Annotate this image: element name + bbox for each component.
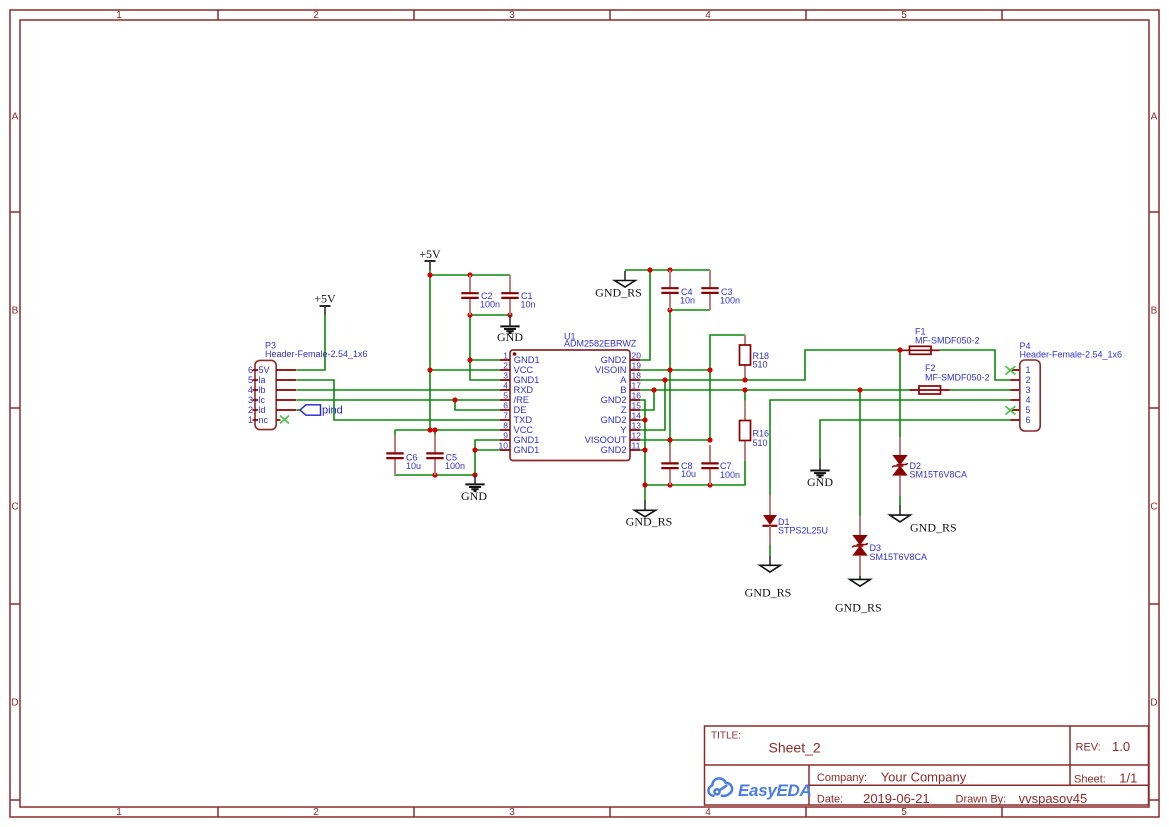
- svg-text:REV:: REV:: [1076, 742, 1101, 754]
- wire C5 top stub: [434, 430, 436, 436]
- svg-text:A: A: [12, 112, 19, 123]
- svg-text:GND2: GND2: [601, 445, 627, 455]
- wire GND2 pin11: [640, 449, 645, 451]
- svg-text:100n: 100n: [720, 296, 740, 306]
- svg-text:1.0: 1.0: [1112, 739, 1130, 754]
- EasyEDA logo: [708, 778, 732, 796]
- wire branch to U1 DE: [455, 400, 500, 410]
- svg-text:1: 1: [248, 415, 253, 425]
- svg-text:2: 2: [313, 807, 319, 818]
- svg-text:9: 9: [503, 431, 508, 441]
- svg-text:3: 3: [248, 395, 253, 405]
- svg-text:3: 3: [1026, 385, 1031, 395]
- resistor R18: [740, 335, 770, 378]
- wire P3.3 lc to U1 /RE: [297, 399, 500, 401]
- svg-text:4: 4: [248, 385, 253, 395]
- svg-text:20: 20: [632, 351, 642, 361]
- svg-text:1: 1: [503, 351, 508, 361]
- svg-text:F2: F2: [925, 363, 936, 373]
- svg-text:10n: 10n: [521, 300, 536, 310]
- svg-text:5: 5: [503, 391, 508, 401]
- svg-text:VISOOUT: VISOOUT: [585, 435, 627, 445]
- node C2 bottom: [467, 312, 472, 317]
- no-connect X on P4.5: [1005, 406, 1015, 414]
- node R16 top on B: [742, 387, 747, 392]
- svg-text:5: 5: [1026, 405, 1031, 415]
- svg-text:+5V: +5V: [314, 292, 336, 306]
- svg-text:C: C: [11, 502, 18, 513]
- svg-text:lb: lb: [259, 385, 266, 395]
- svg-text:RXD: RXD: [514, 385, 534, 395]
- svg-text:17: 17: [632, 381, 642, 391]
- svg-text:GND2: GND2: [601, 395, 627, 405]
- svg-text:pind: pind: [322, 405, 343, 417]
- diode D1 STPS2L25U: [763, 495, 829, 545]
- wire VCC pin2: [430, 369, 500, 371]
- svg-text:4: 4: [705, 10, 711, 21]
- svg-text:5: 5: [901, 10, 907, 21]
- svg-text:2019-06-21: 2019-06-21: [863, 791, 930, 806]
- svg-text:ADM2582EBRWZ: ADM2582EBRWZ: [564, 339, 637, 349]
- wire GND2 pin14: [640, 419, 645, 421]
- wire GND_RS stem lower middle: [644, 485, 646, 500]
- wire GND1 pin10: [475, 449, 500, 451]
- wire D1 net to P4.4: [770, 400, 1011, 495]
- capacitor C6: [386, 435, 421, 475]
- svg-text:GND: GND: [807, 475, 833, 489]
- svg-text:ld: ld: [259, 405, 266, 415]
- svg-text:10u: 10u: [406, 461, 421, 471]
- frame column labels top: [116, 10, 907, 21]
- svg-text:SM15T6V8CA: SM15T6V8CA: [870, 552, 928, 562]
- svg-text:6: 6: [248, 365, 253, 375]
- node bottom rail C7: [707, 482, 712, 487]
- svg-text:C: C: [1150, 502, 1157, 513]
- svg-text:100n: 100n: [445, 461, 465, 471]
- svg-text:D: D: [11, 698, 18, 709]
- wire +5V rail to C1: [430, 274, 510, 276]
- wire VISO vertical x670: [669, 310, 671, 445]
- ground GND at P4.6: [807, 460, 833, 490]
- svg-text:Drawn By:: Drawn By:: [956, 794, 1007, 806]
- wire P3.6 to +5V: [297, 315, 325, 370]
- svg-text:3: 3: [503, 371, 508, 381]
- svg-text:GND1: GND1: [514, 435, 540, 445]
- node GND1 pin1 tap: [467, 357, 472, 362]
- svg-text:8: 8: [503, 421, 508, 431]
- wire D1 bottom to GND_RS: [769, 545, 771, 556]
- svg-text:2: 2: [313, 10, 319, 21]
- wire C6/C5 top rail to VCC pin8: [395, 429, 500, 431]
- svg-text:1: 1: [116, 10, 122, 21]
- frame column ticks top: [218, 10, 1002, 20]
- svg-text:MF-SMDF050-2: MF-SMDF050-2: [915, 336, 980, 346]
- power +5V at P3: [314, 292, 336, 316]
- wire F2 right to P4.3: [950, 389, 1012, 391]
- svg-text:Date:: Date:: [817, 794, 843, 806]
- capacitor C4: [661, 270, 695, 310]
- node VISOIN x710: [707, 367, 712, 372]
- wire U1 GND2 pin20 up to GND_RS rail: [640, 270, 650, 360]
- svg-text:6: 6: [503, 401, 508, 411]
- node VISOIN x670: [667, 367, 672, 372]
- svg-text:Your Company: Your Company: [881, 769, 967, 784]
- netflag pind: [300, 405, 343, 417]
- wire GND_RS top rail: [625, 269, 710, 271]
- ground GND_RS under D3: [835, 576, 882, 615]
- wire GND1 pin9: [475, 440, 500, 475]
- node C5 bottom: [432, 472, 437, 477]
- svg-text:DE: DE: [514, 405, 527, 415]
- fuse F2: [910, 363, 990, 394]
- capacitor C2: [461, 275, 500, 315]
- fuse F1: [900, 327, 980, 355]
- node VISOOUT x670: [667, 437, 672, 442]
- wire D3 top from B row: [859, 390, 861, 516]
- frame column labels bottom: [116, 807, 907, 818]
- svg-text:3: 3: [509, 807, 515, 818]
- svg-text:18: 18: [632, 371, 642, 381]
- svg-text:11: 11: [632, 441, 641, 451]
- wire C6/C5 bottom rail: [395, 474, 475, 475]
- svg-text:B: B: [620, 385, 626, 395]
- svg-text:510: 510: [753, 438, 768, 448]
- wire D2 top from F1 node: [899, 350, 901, 437]
- ground GND_RS under D2: [890, 505, 957, 535]
- wire VISOIN row: [640, 369, 710, 371]
- capacitor C1: [501, 275, 535, 315]
- frame row ticks right: [1149, 212, 1159, 800]
- node R18 bottom on A: [742, 377, 747, 382]
- svg-text:GND_RS: GND_RS: [626, 515, 673, 529]
- svg-text:14: 14: [632, 411, 642, 421]
- capacitor C8: [661, 445, 696, 485]
- node GND_RS rail pin20: [647, 267, 652, 272]
- svg-text:Header-Female-2.54_1x6: Header-Female-2.54_1x6: [1020, 350, 1123, 360]
- svg-text:STPS2L25U: STPS2L25U: [778, 526, 828, 536]
- svg-text:16: 16: [632, 391, 642, 401]
- svg-text:4: 4: [1026, 395, 1031, 405]
- wire A row pin18: [640, 350, 900, 380]
- capacitor C3: [701, 270, 740, 310]
- wire C4 bottom to C3 bottom: [670, 309, 710, 311]
- frame row labels left: [11, 112, 18, 709]
- wire P3.5 la to U1 TXD: [297, 380, 500, 420]
- svg-text:B: B: [12, 306, 19, 317]
- svg-text:6: 6: [1026, 415, 1031, 425]
- svg-text:B: B: [1151, 306, 1158, 317]
- svg-text:GND_RS: GND_RS: [835, 601, 882, 615]
- wire Z pin15 loop to B: [640, 390, 654, 410]
- svg-text:13: 13: [632, 421, 642, 431]
- svg-text:GND_RS: GND_RS: [745, 586, 792, 600]
- node C2 top: [467, 272, 472, 277]
- wire VISO vertical x710 to R18 branch: [640, 335, 745, 440]
- node B-Z junction: [651, 387, 656, 392]
- svg-text:GND: GND: [461, 489, 487, 503]
- frame row labels right: [1150, 112, 1157, 709]
- ground GND_RS under D1: [745, 556, 792, 600]
- node A-Y junction: [662, 377, 667, 382]
- svg-text:5: 5: [248, 375, 253, 385]
- node VCC rail x430 y430: [427, 427, 432, 432]
- node GND2 pin11: [642, 447, 647, 452]
- wire C2 bottom to C1 bottom: [470, 314, 510, 316]
- diode D3 SM15T6V8CA (TVS): [852, 516, 927, 576]
- svg-text:2: 2: [503, 361, 508, 371]
- power +5V at C2/C1: [419, 247, 441, 270]
- svg-text:100n: 100n: [480, 300, 500, 310]
- node GND2 pin14: [642, 417, 647, 422]
- svg-text:4: 4: [705, 807, 711, 818]
- wire P3.4 lb to U1 RXD: [297, 389, 500, 391]
- svg-text:1: 1: [116, 807, 122, 818]
- svg-text:GND1: GND1: [514, 445, 540, 455]
- svg-text:nc: nc: [259, 415, 269, 425]
- svg-text:1: 1: [1026, 365, 1031, 375]
- node GND rail pin10 tap: [472, 447, 477, 452]
- resistor R16: [740, 401, 770, 462]
- wire D2 bottom to GND_RS: [899, 496, 901, 505]
- svg-text:1/1: 1/1: [1119, 771, 1137, 786]
- ground GND under C5/C6 rail: [461, 475, 487, 503]
- node bottom rail x645: [642, 482, 647, 487]
- svg-text:Sheet:: Sheet:: [1074, 774, 1106, 786]
- svg-text:10n: 10n: [680, 296, 695, 306]
- svg-text:510: 510: [753, 360, 768, 370]
- node bottom rail C8: [667, 482, 672, 487]
- frame column ticks bottom: [218, 807, 1002, 817]
- ground GND_RS lower middle: [626, 500, 673, 529]
- svg-text:VCC: VCC: [514, 425, 534, 435]
- svg-text:vvspasov45: vvspasov45: [1019, 791, 1088, 806]
- svg-text:TXD: TXD: [514, 415, 533, 425]
- svg-text:GND1: GND1: [514, 355, 540, 365]
- title block outline: [705, 726, 1149, 805]
- svg-text:GND2: GND2: [601, 355, 627, 365]
- svg-text:VISOIN: VISOIN: [595, 365, 627, 375]
- node /RE-DE tap: [452, 397, 457, 402]
- svg-text:10u: 10u: [681, 469, 696, 479]
- no-connect X on P3.1: [280, 416, 289, 424]
- node C1 bottom GND: [507, 312, 512, 317]
- svg-text:lc: lc: [259, 395, 266, 405]
- svg-text:Z: Z: [621, 405, 627, 415]
- wire GND net to P4.6: [820, 420, 1011, 460]
- svg-text:SM15T6V8CA: SM15T6V8CA: [910, 470, 968, 480]
- svg-text:Company:: Company:: [817, 772, 867, 784]
- node C5 top: [432, 427, 437, 432]
- svg-text:Y: Y: [620, 425, 626, 435]
- svg-text:TITLE:: TITLE:: [711, 731, 741, 742]
- wire C6 top stub: [394, 430, 396, 436]
- wire B row pin17: [640, 389, 910, 391]
- svg-text:A: A: [1151, 112, 1158, 123]
- node D3 tap on B: [857, 387, 862, 392]
- wire P3.2 ld to pind flag: [297, 409, 301, 411]
- node GND rail bottom: [472, 472, 477, 477]
- ground GND under C1: [497, 315, 523, 344]
- ground GND_RS top: [595, 271, 642, 300]
- node C4 bottom: [667, 307, 672, 312]
- node +5V/rail x430: [427, 267, 902, 487]
- svg-text:Header-Female-2.54_1x6: Header-Female-2.54_1x6: [265, 349, 368, 359]
- svg-text:Sheet_2: Sheet_2: [769, 740, 821, 756]
- header P3: [248, 341, 368, 430]
- svg-text:5V: 5V: [259, 365, 270, 375]
- node GND_RS rail C4: [667, 267, 672, 272]
- svg-text:4: 4: [503, 381, 508, 391]
- svg-text:15: 15: [632, 401, 642, 411]
- svg-text:A: A: [620, 375, 627, 385]
- svg-text:5: 5: [901, 807, 907, 818]
- node VISOOUT x710: [707, 437, 712, 442]
- svg-text:GND2: GND2: [601, 415, 627, 425]
- svg-text:19: 19: [632, 361, 642, 371]
- capacitor C5: [426, 435, 465, 475]
- svg-text:+5V: +5V: [419, 247, 441, 261]
- svg-text:EasyEDA: EasyEDA: [738, 781, 812, 800]
- svg-text:la: la: [259, 375, 266, 385]
- header P4: [1011, 341, 1123, 431]
- wire GND_RS bottom rail: [645, 461, 745, 485]
- svg-text:GND_RS: GND_RS: [910, 521, 957, 535]
- wire Y pin13 loop to A: [640, 380, 665, 430]
- svg-text:VCC: VCC: [514, 365, 534, 375]
- svg-text:GND: GND: [497, 330, 523, 344]
- svg-text:10: 10: [499, 441, 509, 451]
- wire GND2 pin16 vertical x645: [640, 400, 645, 485]
- svg-text:D: D: [1150, 698, 1157, 709]
- wire GND1 vertical x470: [470, 315, 500, 380]
- capacitor C7: [701, 445, 740, 485]
- svg-text:12: 12: [632, 431, 642, 441]
- svg-text:GND_RS: GND_RS: [595, 286, 642, 300]
- no-connect X on P4.1: [1005, 366, 1015, 374]
- wire F1 right to P4.2: [940, 350, 1012, 380]
- wire +5V rail vertical x430: [429, 270, 431, 430]
- svg-text:GND1: GND1: [514, 375, 540, 385]
- node F1/D2 tap: [897, 347, 902, 352]
- svg-text:R16: R16: [753, 429, 770, 439]
- wire R16 top from B row: [744, 390, 746, 401]
- diode D2 SM15T6V8CA (TVS): [892, 437, 967, 496]
- IC U1 ADM2582EBRWZ: [499, 332, 642, 461]
- svg-text:100n: 100n: [720, 470, 740, 480]
- svg-text:7: 7: [503, 411, 508, 421]
- svg-text:MF-SMDF050-2: MF-SMDF050-2: [925, 373, 990, 383]
- svg-text:3: 3: [509, 10, 515, 21]
- svg-text:/RE: /RE: [514, 395, 530, 405]
- svg-text:2: 2: [1026, 375, 1031, 385]
- svg-text:2: 2: [248, 405, 253, 415]
- frame row ticks left: [10, 212, 20, 800]
- wire GND1 pin1: [470, 359, 500, 361]
- node VCC pin2 tap: [427, 367, 432, 372]
